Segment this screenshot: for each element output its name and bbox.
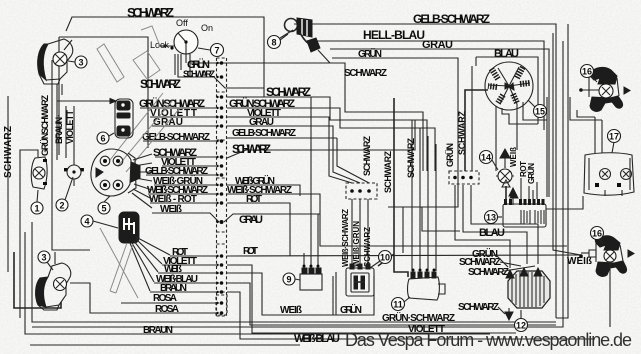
callout 15: [534, 105, 547, 118]
svg-text:On: On: [201, 23, 213, 33]
svg-text:ROSA: ROSA: [153, 293, 177, 304]
callout 9: [283, 273, 295, 285]
callout 12: [515, 319, 528, 332]
front right indicator (16 top): [579, 67, 630, 111]
wire BRAUN row: [150, 292, 595, 339]
svg-text:SCHWARZ: SCHWARZ: [468, 267, 509, 278]
wire SCHWARZ label line mid: [227, 97, 427, 171]
wire VIOLETT second row: [162, 165, 216, 167]
wire VIOLETT bottom row: [162, 265, 516, 333]
wire flywheel drops: [472, 66, 547, 171]
svg-text:SCHWARZ: SCHWARZ: [458, 302, 499, 313]
wire WEISS-SCHWARZ row: [148, 194, 320, 214]
wire leaders rectifier labels: [496, 255, 535, 314]
svg-text:SCHWARZ: SCHWARZ: [363, 227, 372, 267]
rectifier (12): [505, 268, 550, 320]
svg-text:BRAUN ·: BRAUN ·: [54, 114, 64, 144]
wire ROSA row 1: [121, 302, 216, 304]
wire into switch block with arrow: [57, 101, 115, 160]
junction column 2 lower dashed (rosa): [216, 295, 227, 315]
rear right indicator (16 bottom): [579, 236, 634, 327]
wire GRAU row: [152, 125, 330, 127]
wire left box around lamps: [59, 37, 148, 148]
wire WEISS-ROT to ROT row: [150, 203, 290, 256]
wire CDI pins up: [352, 199, 368, 264]
junction column 1 dashed: [217, 58, 227, 316]
svg-text:SCHWARZ: SCHWARZ: [406, 138, 416, 179]
wire left edge SCHWARZ vertical: [8, 96, 300, 345]
flywheel magneto (15): [465, 57, 538, 171]
wire ignition box: [166, 46, 186, 63]
callout 2: [56, 199, 68, 211]
wire GRAU top run: [330, 49, 549, 197]
wire left GRUENSCHWARZ vertical: [52, 60, 90, 250]
junction CDI connector block dashed: [346, 183, 377, 199]
svg-text:WEIß: WEIß: [160, 204, 182, 215]
wire ROSA row 2: [70, 283, 216, 313]
wire HELL-BLAU top run: [317, 41, 544, 130]
svg-text:GRAU: GRAU: [249, 117, 274, 128]
callout 17: [608, 130, 621, 143]
svg-text:16: 16: [582, 67, 592, 77]
svg-text:GRÜNSCHWARZ: GRÜNSCHWARZ: [40, 95, 50, 157]
svg-text:13: 13: [486, 213, 496, 223]
svg-text:11: 11: [393, 300, 403, 310]
wire GELB-SCHWARZ row: [143, 138, 337, 141]
svg-text:1: 1: [34, 204, 39, 214]
svg-text:ROT: ROT: [246, 194, 262, 205]
stop light switch (9): [300, 265, 322, 291]
svg-text:GRAU: GRAU: [422, 39, 453, 51]
callout 5: [98, 202, 110, 214]
callout 8: [268, 36, 281, 49]
callout 4: [81, 215, 93, 227]
wire right bundle 3: [32, 41, 563, 327]
svg-text:9: 9: [286, 275, 291, 285]
fuse / terminal box (13): [502, 180, 583, 227]
svg-text:SCHWARZ: SCHWARZ: [3, 126, 14, 178]
wire SCHWARZ small from switch: [178, 54, 264, 88]
svg-text:17: 17: [609, 132, 619, 142]
svg-text:3: 3: [78, 58, 83, 68]
svg-text:3: 3: [41, 253, 46, 263]
wire nested rect top: [388, 171, 460, 253]
svg-text:WEIß·GRÜN: WEIß·GRÜN: [352, 221, 361, 267]
wire lamp3 bottom stem: [14, 252, 61, 308]
callout 14: [480, 151, 493, 164]
svg-text:SCHWARZ: SCHWARZ: [127, 5, 174, 20]
callout 6: [97, 132, 109, 144]
wire lamp1 drop: [20, 150, 38, 318]
svg-text:4: 4: [84, 217, 89, 227]
wire WEISS row to lamp 9: [158, 272, 336, 315]
wire bottom bus line: [32, 222, 556, 322]
svg-text:Off: Off: [176, 18, 188, 28]
wire comp9 pins up: [304, 214, 318, 272]
svg-text:2: 2: [59, 201, 64, 211]
wire BRAUN bottom long: [25, 232, 490, 334]
wire heavy SCHWARZ vertical center: [378, 98, 408, 277]
svg-text:ROSA: ROSA: [155, 304, 179, 315]
callout 10: [379, 251, 392, 264]
pilot bulb (2): [64, 106, 84, 186]
svg-text:HELL-BLAU: HELL-BLAU: [363, 28, 425, 42]
handlebar switch connector block (6): [57, 99, 133, 161]
wire GRUEN-SCHWARZ row: [140, 108, 435, 171]
wire elbows to CDI connector block: [322, 117, 369, 183]
svg-text:BRAUN: BRAUN: [143, 325, 173, 336]
svg-text:SCHWARZ: SCHWARZ: [362, 136, 372, 177]
wire GELB-SCHWARZ second row: [146, 174, 216, 176]
svg-text:5: 5: [101, 204, 106, 214]
wire WEISS left to GRAU jog: [152, 213, 567, 246]
svg-text:GELB·SCHWARZ: GELB·SCHWARZ: [232, 128, 296, 139]
front left indicator lamp (3 top): [38, 39, 73, 101]
svg-text:GELB-SCHWARZ: GELB-SCHWARZ: [413, 12, 490, 26]
callout 16 bottom: [591, 227, 604, 240]
ignition switch (7): [160, 30, 198, 75]
handlebar tubes sketch: [97, 26, 180, 172]
wire connector to rectifier drops: [455, 185, 538, 268]
svg-text:6: 6: [100, 134, 105, 144]
wire VIOLETT row: [150, 116, 322, 118]
dimmer switch block (4): [100, 212, 170, 298]
wire SCHWARZ top from front indicator to ignition box and down to horn lane: [66, 17, 311, 266]
wire WEISS-BLAU row: [154, 283, 556, 325]
wire ROT row to rear indicator: [170, 255, 581, 256]
callout 11: [392, 298, 405, 311]
brake light switch lamp assembly (14): [496, 149, 517, 205]
wire BLAU from fuse box: [521, 178, 537, 199]
wire flywheel lighting coil out heavy: [465, 90, 488, 171]
callout 13: [485, 211, 498, 224]
svg-text:GRÜN: GRÜN: [340, 303, 362, 316]
wire flywheel staircase below: [502, 108, 538, 124]
svg-text:SCHWARZ: SCHWARZ: [140, 77, 181, 91]
svg-text:SCHWARZ: SCHWARZ: [344, 68, 387, 79]
svg-text:WEIß·SCHWARZ: WEIß·SCHWARZ: [341, 209, 350, 267]
svg-text:ROT: ROT: [243, 246, 258, 257]
wire right bundle 2: [553, 33, 581, 255]
CDI unit (10): [346, 264, 374, 296]
wire from ignition switch GRUEN: [190, 54, 423, 171]
wire taillight feeds: [570, 97, 602, 153]
wire GELB-SCHWARZ top long run to right side: [294, 24, 556, 318]
svg-text:10: 10: [380, 253, 390, 263]
callout 16 top: [581, 65, 594, 78]
callout 7: [211, 44, 224, 57]
svg-text:SCHWARZ: SCHWARZ: [266, 85, 311, 99]
svg-text:BLAU: BLAU: [494, 48, 519, 60]
svg-text:SCHWARZ: SCHWARZ: [383, 151, 393, 194]
wire GRUEN switch lane: [189, 63, 191, 77]
callout 3 top: [75, 56, 87, 68]
svg-text:12: 12: [516, 321, 526, 331]
svg-text:GRAU: GRAU: [239, 214, 263, 226]
wire GRUEN lane to CDI: [333, 276, 374, 315]
svg-text:GRÜN: GRÜN: [445, 143, 455, 167]
tail light (17): [584, 153, 634, 196]
voltage regulator (11): [408, 269, 446, 301]
callout 3 bottom: [38, 251, 50, 263]
wire WEISS-GRUEN row: [154, 185, 300, 196]
svg-text:GRÜN: GRÜN: [527, 163, 536, 184]
junction connector block horizontal (near 14): [449, 171, 479, 184]
wire regulator pins up: [412, 120, 436, 271]
svg-text:7: 7: [214, 46, 219, 56]
svg-text:SCHWARZ: SCHWARZ: [183, 69, 216, 79]
wire SCHWARZ big row: [155, 120, 415, 158]
parking lamp (1): [31, 157, 47, 189]
svg-text:16: 16: [592, 229, 602, 239]
headlamp bowl with bulbs (5): [91, 149, 152, 208]
svg-text:15: 15: [535, 107, 545, 117]
wire GRUEN top run to connector: [332, 58, 458, 171]
rear left indicator lamp (3 bottom): [36, 252, 71, 310]
junction column 1 contact dots: [216, 61, 223, 315]
svg-text:BLAU: BLAU: [479, 227, 505, 239]
svg-text:WEIß: WEIß: [509, 147, 518, 167]
svg-text:14: 14: [481, 153, 491, 163]
svg-text:WEIß·BLAU: WEIß·BLAU: [294, 333, 340, 345]
svg-text:SCHWARZ: SCHWARZ: [232, 142, 271, 156]
svg-text:8: 8: [271, 38, 276, 48]
callout 1: [31, 202, 43, 214]
flywheel enclosure box BLAU: [476, 57, 538, 124]
wire right bundle 1: [546, 97, 548, 197]
wire right bundle 4: [556, 24, 568, 318]
svg-text:GRÜN: GRÜN: [358, 47, 382, 60]
svg-text:WEIß: WEIß: [567, 256, 592, 267]
svg-text:WEIß: WEIß: [280, 305, 302, 316]
svg-text:Das Vespa Forum - www.vespaonl: Das Vespa Forum - www.vespaonline.de: [345, 330, 632, 350]
svg-text:GRÜN·SCHWARZ: GRÜN·SCHWARZ: [382, 311, 455, 324]
horn (8): [280, 18, 330, 63]
